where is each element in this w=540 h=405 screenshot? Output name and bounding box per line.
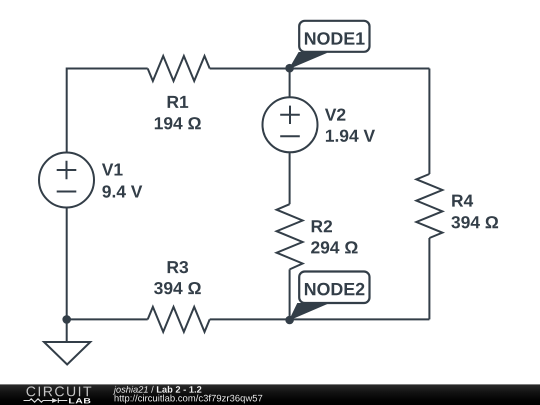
- footer logo CIRCUIT text: [27, 386, 92, 396]
- resistor R3: [148, 307, 210, 332]
- node NODE2 callout box: [299, 272, 369, 304]
- node NODE1 callout box: [299, 21, 369, 52]
- wire right side lower (R4 to bottom-right corner): [428, 238, 430, 319]
- label R2 value: [311, 220, 358, 253]
- wire bottom (right corner to NODE2 junction to R3): [210, 318, 430, 320]
- wire V2 branch upper (NODE1 down to V2): [289, 69, 291, 98]
- junction dot at ground node: [62, 315, 71, 324]
- ground: [44, 342, 90, 365]
- resistor R2: [277, 204, 303, 269]
- wire bottom-left (R3 to ground junction): [67, 318, 148, 320]
- wire right side upper (top corner down to R4): [428, 69, 430, 175]
- label R3 value: [154, 261, 201, 294]
- footer url line: [115, 395, 263, 404]
- node NODE2 junction dot: [285, 316, 294, 325]
- wire R2 to NODE2 junction: [289, 269, 291, 319]
- footer logo resistor-diode glyph: [24, 398, 68, 403]
- label V2 value: [325, 109, 375, 142]
- voltage source V2: [263, 97, 318, 152]
- node NODE2 callout pointer: [290, 304, 327, 320]
- footer title line: [113, 386, 201, 395]
- node NODE1 junction dot: [285, 64, 294, 73]
- voltage source V1: [39, 153, 94, 208]
- wire left-upper and top-left (V1 top to corner to R1 left lead): [67, 69, 148, 153]
- label R1 value: [155, 96, 201, 129]
- footer bar: [0, 384, 540, 405]
- label V1 value: [102, 164, 142, 198]
- wire top-middle (R1 to NODE1 junction to top-right corner): [210, 68, 430, 70]
- node NODE1 callout pointer: [290, 53, 327, 69]
- label R4 value: [451, 195, 498, 229]
- resistor R1: [148, 56, 210, 81]
- footer logo LAB text: [69, 398, 90, 403]
- resistor R4: [416, 174, 442, 238]
- wire left side lower (V1 to ground junction): [66, 208, 68, 343]
- wire V2 to R2: [289, 152, 291, 204]
